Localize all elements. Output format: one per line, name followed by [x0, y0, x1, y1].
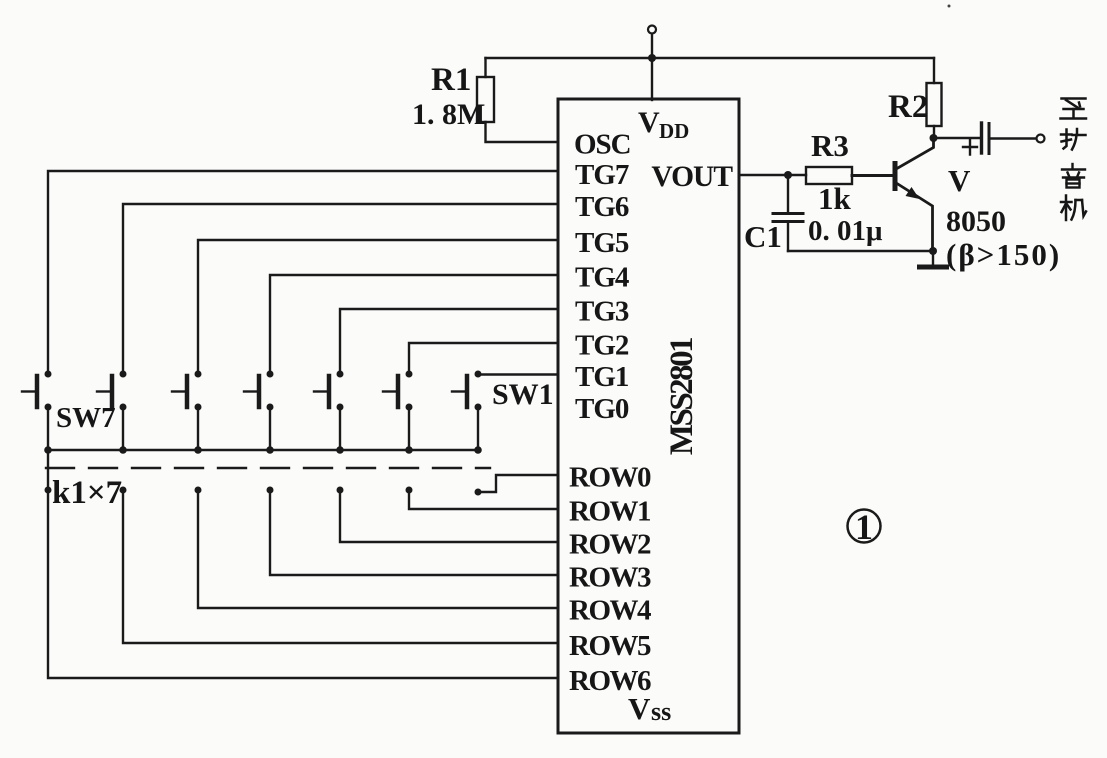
figure number circled 1 — [848, 510, 881, 543]
Chinese label: to amplifier (ji) — [1061, 196, 1086, 221]
dashed repeat line — [46, 467, 490, 469]
wire: TG2 pin to SW2 column — [409, 343, 558, 371]
capacitor C1 top plate — [773, 212, 803, 215]
wire: ROW2 — [340, 490, 558, 542]
svg-text:OSC: OSC — [574, 129, 631, 161]
svg-text:ROW2: ROW2 — [569, 529, 651, 561]
wire: TG4 pin to SW4 column — [270, 275, 558, 371]
switch SW7 contacts — [45, 371, 52, 378]
switch SW5 actuator — [185, 376, 190, 407]
switch SW4 actuator — [257, 376, 262, 407]
wire: ROW3 — [270, 490, 558, 575]
switch SW6 actuator — [110, 376, 115, 407]
svg-text:R3: R3 — [811, 128, 849, 163]
node: row pick dots — [45, 487, 52, 494]
wire: TG5 pin to SW5 column — [198, 240, 558, 371]
IC U1 MSS2801 body — [558, 99, 739, 733]
transistor Q1 collector stroke — [897, 138, 934, 169]
wire: SW7 bottom to bus — [47, 407, 49, 450]
svg-text:(β>150): (β>150) — [946, 237, 1061, 272]
wire: SW6 bottom to bus — [122, 407, 124, 450]
svg-text:C1: C1 — [744, 219, 782, 254]
wire: collector node to output capacitor — [934, 137, 981, 139]
wire: capacitor to output terminal — [991, 137, 1036, 139]
transistor Q1 base bar — [893, 161, 898, 191]
svg-text:DD: DD — [659, 119, 689, 143]
VDD terminal — [648, 26, 656, 34]
svg-text:TG7: TG7 — [575, 159, 629, 191]
switch SW6 contacts — [120, 371, 127, 378]
switch SW2 actuator — [396, 376, 401, 407]
Chinese label: to amplifier (zhi) — [1061, 99, 1087, 119]
transistor Q1 emitter stroke — [897, 184, 933, 252]
switch SW2 contacts — [406, 371, 413, 378]
svg-text:8050: 8050 — [946, 205, 1006, 238]
svg-text:TG2: TG2 — [575, 330, 629, 362]
svg-text:TG5: TG5 — [575, 227, 629, 259]
wire: TG3 pin to SW3 column — [340, 309, 558, 371]
svg-text:VOUT: VOUT — [651, 161, 733, 193]
plus sign of output capacitor — [963, 140, 977, 155]
node: collector junction dot — [930, 134, 938, 142]
capacitor C2 output right plate — [988, 124, 991, 154]
wire: terminal to rail — [651, 34, 653, 58]
wire: SW2 bottom to bus — [408, 407, 410, 450]
wire: ROW4 — [198, 490, 558, 608]
svg-text:R1: R1 — [431, 62, 471, 98]
wire: ROW1 — [409, 490, 558, 509]
capacitor C1 bottom plate — [773, 220, 803, 223]
wire: rail corner down to R2 — [933, 58, 935, 83]
wire: R1 bottom to OSC pin — [486, 122, 559, 142]
node: bus junction dots — [44, 446, 52, 454]
svg-text:TG6: TG6 — [575, 191, 629, 223]
wire: emitter node to ground — [932, 251, 934, 265]
svg-text:TG1: TG1 — [575, 361, 628, 393]
svg-text:TG4: TG4 — [575, 262, 629, 294]
transistor Q1 emitter arrow — [906, 187, 920, 199]
svg-text:ROW4: ROW4 — [569, 595, 651, 627]
capacitor C1 bottom lead — [787, 223, 789, 251]
svg-text:ROW3: ROW3 — [569, 562, 651, 594]
node: VOUT junction dot — [784, 171, 792, 179]
wire: left rail bus to ROW6 — [48, 450, 558, 678]
svg-text:1: 1 — [855, 507, 873, 547]
svg-text:ROW5: ROW5 — [569, 630, 651, 662]
wire: R3 to transistor base — [852, 174, 893, 177]
Chinese label: to amplifier (kuo) — [1061, 129, 1086, 150]
switch SW4 contacts — [267, 371, 274, 378]
wire: TG1 pin to SW1 top contact — [478, 373, 558, 375]
wire: VOUT pin to node — [739, 174, 806, 176]
svg-text:V: V — [948, 163, 971, 198]
svg-text:MSS2801: MSS2801 — [664, 338, 700, 455]
switch SW7 actuator — [35, 376, 40, 407]
switch SW3 actuator — [327, 376, 332, 407]
wire: top VDD rail — [486, 57, 935, 59]
wire: TG7 pin to left rail — [48, 171, 558, 371]
output terminal circle — [1037, 135, 1045, 143]
wire: ROW0 jog — [478, 475, 558, 492]
svg-text:TG3: TG3 — [575, 296, 629, 328]
svg-text:k1×7: k1×7 — [52, 475, 122, 511]
ground — [920, 265, 947, 270]
svg-text:ROW1: ROW1 — [569, 496, 650, 528]
wire: common bus — [46, 449, 479, 451]
wire: SW4 bottom to bus — [269, 407, 271, 450]
svg-text:R2: R2 — [888, 89, 928, 125]
svg-text:1k: 1k — [818, 181, 852, 216]
resistor R3 body — [806, 167, 852, 184]
wire: SW5 bottom to bus — [197, 407, 199, 450]
scan speck — [948, 5, 951, 8]
capacitor C1 top lead — [787, 175, 789, 212]
node: emitter junction dot — [929, 247, 937, 255]
wire: TG6 pin to SW6 column — [123, 204, 558, 371]
wire: R2 bottom to collector node — [933, 126, 935, 138]
wire: ROW5 — [123, 490, 558, 643]
switch SW1 contacts — [475, 371, 482, 378]
resistor R2 body — [927, 83, 942, 126]
svg-text:SW7: SW7 — [56, 402, 116, 434]
svg-text:ss: ss — [651, 697, 671, 726]
svg-text:ROW0: ROW0 — [569, 462, 651, 494]
svg-text:V: V — [628, 691, 651, 726]
switch SW1 actuator — [465, 376, 470, 407]
svg-text:0. 01μ: 0. 01μ — [808, 215, 883, 247]
resistor R1 body — [477, 77, 494, 122]
svg-text:SW1: SW1 — [492, 378, 554, 411]
wire: C1 bottom to emitter node — [788, 250, 933, 252]
wire: VDD pin into chip — [651, 58, 653, 100]
node: VDD junction dot — [648, 54, 656, 62]
svg-text:V: V — [638, 106, 660, 139]
capacitor C2 output (polarized) left plate — [980, 123, 983, 153]
switch SW5 contacts — [195, 371, 202, 378]
svg-text:1. 8M: 1. 8M — [412, 98, 485, 131]
wire: rail to R1 top — [484, 58, 486, 77]
switch SW3 contacts — [337, 371, 344, 378]
Chinese label: to amplifier (yin) — [1062, 164, 1085, 188]
wire: SW3 bottom to bus — [339, 407, 341, 450]
svg-text:TG0: TG0 — [575, 393, 629, 425]
wire: SW1 bottom to bus — [477, 407, 479, 450]
